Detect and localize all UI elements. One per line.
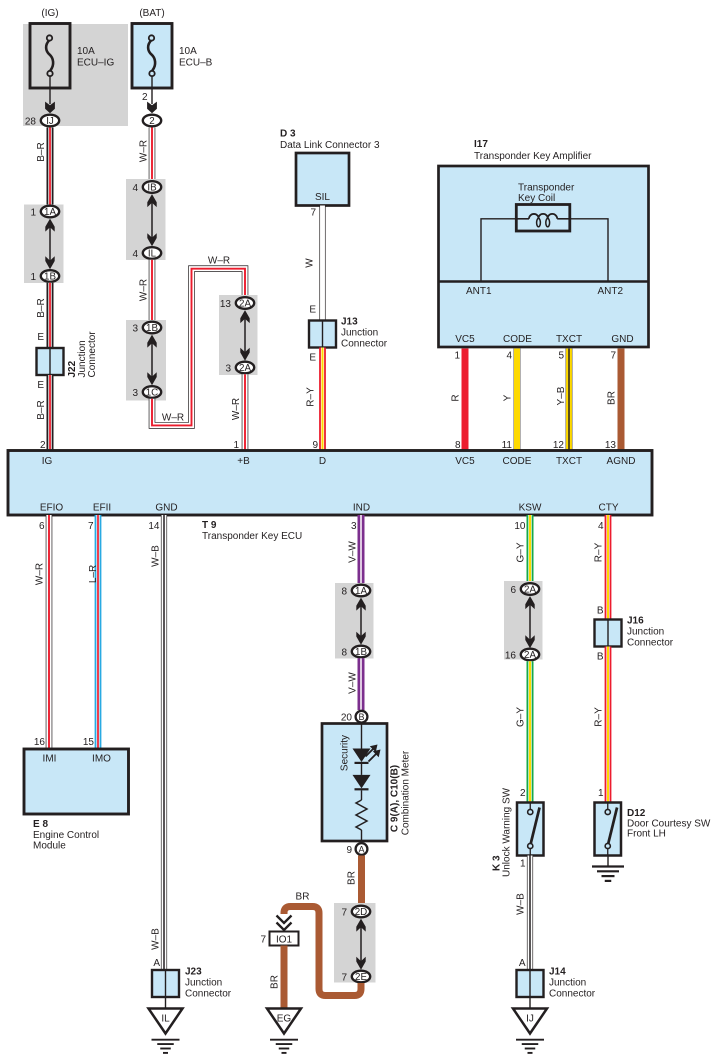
wire D12 to ground: [607, 856, 609, 867]
svg-text:1C: 1C: [146, 388, 159, 399]
labels IMI IMO: [43, 754, 112, 765]
svg-text:J23: J23: [185, 967, 202, 978]
svg-text:C 9(A), C10(B): C 9(A), C10(B): [390, 765, 401, 832]
ground below D12: [592, 867, 624, 881]
svg-text:CODE: CODE: [503, 456, 532, 467]
svg-text:4: 4: [132, 183, 138, 194]
svg-text:T 9: T 9: [202, 520, 217, 531]
connector 2: [143, 115, 161, 127]
svg-text:E: E: [309, 305, 316, 316]
wire fuse IG to connector IJ: [45, 77, 55, 113]
wire Y-B TXCT: [566, 349, 573, 451]
svg-text:J16: J16: [627, 616, 644, 627]
svg-text:D: D: [319, 456, 326, 467]
svg-text:15: 15: [83, 737, 95, 748]
wire W-R 1C loop to 2A: [152, 269, 245, 426]
svg-text:Combination Meter: Combination Meter: [401, 750, 412, 835]
wire W-B K3 to J14: [527, 856, 533, 971]
svg-text:Security: Security: [340, 735, 351, 771]
pass-through arrows 2A-2A KSW: [525, 596, 534, 648]
component combination meter box: [322, 724, 387, 842]
svg-text:SIL: SIL: [315, 192, 330, 203]
svg-text:10A: 10A: [77, 46, 95, 57]
junction connector J22: [37, 348, 64, 375]
wire B-R 1B to J22: [47, 283, 54, 349]
meter internal wire diode to resistor: [361, 790, 363, 800]
svg-text:2: 2: [149, 116, 154, 127]
wire G-Y KSW to 2A: [527, 515, 534, 583]
svg-text:9: 9: [346, 845, 352, 856]
gray backdrop fuse IG block: [23, 24, 128, 126]
connector 1B pin 3: [132, 322, 161, 335]
ground EG: [267, 1009, 301, 1053]
ECU top terminal labels: [42, 456, 636, 467]
svg-text:4: 4: [598, 521, 604, 532]
wire B-R IJ to 1A: [47, 128, 54, 206]
wire W-B GND to J23: [161, 515, 167, 970]
svg-text:W–B: W–B: [151, 545, 162, 567]
svg-text:E 8: E 8: [33, 819, 48, 830]
connector 2E pin 7: [341, 971, 370, 984]
svg-text:8: 8: [341, 647, 347, 658]
svg-text:KSW: KSW: [519, 503, 542, 514]
label C 9(A), C10(B) Combination Meter rotated: [390, 750, 412, 835]
svg-text:IMI: IMI: [43, 754, 57, 765]
connector 1A pin 8: [341, 585, 370, 598]
gray backdrop connector 1A/1B: [24, 205, 64, 284]
svg-text:IND: IND: [353, 503, 370, 514]
svg-text:Junction: Junction: [185, 978, 222, 989]
svg-text:1A: 1A: [355, 586, 367, 597]
svg-text:14: 14: [148, 521, 160, 532]
svg-text:B–R: B–R: [36, 142, 47, 161]
svg-text:2A: 2A: [524, 650, 536, 661]
svg-text:VC5: VC5: [455, 456, 475, 467]
wire V-W 1B to B: [358, 658, 365, 710]
svg-text:W–B: W–B: [151, 928, 162, 950]
svg-text:BR: BR: [607, 391, 618, 405]
svg-text:IMO: IMO: [92, 754, 111, 765]
wire BR A to 2D: [358, 856, 365, 906]
switch K3 Unlock Warning SW: [517, 803, 544, 856]
svg-text:(IG): (IG): [41, 8, 58, 19]
svg-text:W–R: W–R: [231, 398, 242, 420]
label 10A ECU-IG: [77, 46, 114, 69]
svg-text:Junction: Junction: [627, 627, 664, 638]
svg-text:ECU–IG: ECU–IG: [77, 58, 114, 69]
svg-text:28: 28: [25, 116, 37, 127]
svg-text:1: 1: [454, 351, 460, 362]
component E8 Engine Control Module box: [24, 749, 129, 814]
svg-text:13: 13: [220, 299, 232, 310]
svg-text:1A: 1A: [44, 207, 56, 218]
connector 1A pin 1: [30, 206, 59, 219]
svg-text:TXCT: TXCT: [556, 334, 582, 345]
svg-text:ANT2: ANT2: [598, 286, 624, 297]
pass-through arrows 1A-1B meter: [356, 598, 365, 645]
svg-text:16: 16: [34, 737, 46, 748]
svg-text:4: 4: [506, 351, 512, 362]
svg-text:1B: 1B: [146, 323, 158, 334]
svg-text:B: B: [597, 606, 604, 617]
connector 2A pin 3: [225, 362, 254, 375]
svg-text:1B: 1B: [44, 272, 56, 283]
svg-text:Junction: Junction: [341, 328, 378, 339]
svg-text:IL: IL: [161, 1014, 170, 1025]
svg-text:G–Y: G–Y: [516, 707, 527, 727]
svg-text:R–Y: R–Y: [594, 542, 605, 562]
label D 3 Data Link Connector 3: [280, 129, 380, 152]
svg-text:8: 8: [341, 586, 347, 597]
svg-text:Transponder Key ECU: Transponder Key ECU: [202, 531, 302, 542]
svg-text:R–Y: R–Y: [306, 387, 317, 407]
ECU pin labels 8 11 12 13: [455, 440, 616, 451]
svg-text:20: 20: [341, 713, 353, 724]
amplifier pin labels 1 4 5 7: [454, 351, 616, 362]
svg-text:7: 7: [610, 351, 616, 362]
svg-text:ANT1: ANT1: [466, 286, 492, 297]
junction connector J13: [309, 321, 336, 348]
svg-text:1: 1: [30, 207, 36, 218]
svg-text:EG: EG: [277, 1014, 292, 1025]
svg-text:4: 4: [132, 249, 138, 260]
svg-text:CODE: CODE: [503, 334, 532, 345]
transponder key coil box with inductor: [516, 205, 570, 232]
svg-text:J14: J14: [549, 967, 566, 978]
connector 2A pin 16: [505, 649, 539, 662]
wire R VC5: [462, 349, 469, 451]
svg-text:IL: IL: [148, 249, 157, 260]
svg-text:6: 6: [39, 521, 45, 532]
svg-text:Junction: Junction: [549, 978, 586, 989]
connector 1B pin 8: [341, 646, 370, 659]
svg-text:A: A: [153, 958, 160, 969]
label D12 Door Courtesy SW Front LH: [627, 808, 711, 840]
svg-text:Connector: Connector: [185, 989, 232, 1000]
svg-text:2A: 2A: [239, 363, 251, 374]
svg-text:G–Y: G–Y: [516, 542, 527, 562]
wire R-Y CTY to J16: [605, 515, 612, 620]
wire J14 to IJ ground: [529, 997, 531, 1009]
svg-text:Engine Control: Engine Control: [33, 830, 99, 841]
svg-text:IB: IB: [147, 183, 157, 194]
junction connector J14: [517, 970, 544, 997]
svg-text:A: A: [519, 958, 526, 969]
svg-text:EFII: EFII: [93, 503, 111, 514]
component D3 Data Link Connector 3 box: [296, 153, 349, 206]
svg-text:2A: 2A: [239, 299, 251, 310]
svg-text:GND: GND: [155, 503, 177, 514]
wire BR GND to AGND: [618, 349, 625, 451]
svg-text:10: 10: [514, 521, 526, 532]
svg-text:Connector: Connector: [341, 339, 388, 350]
svg-text:Module: Module: [33, 841, 66, 852]
svg-text:E: E: [37, 380, 44, 391]
svg-text:D12: D12: [627, 808, 646, 819]
label T 9 Transponder Key ECU: [202, 520, 302, 542]
wire R-Y J16 to D12: [605, 647, 612, 804]
svg-text:1: 1: [598, 788, 604, 799]
wire W-R IL to 1B: [149, 260, 156, 322]
pass-through arrows 1B-1C: [147, 335, 156, 386]
svg-text:IJ: IJ: [526, 1014, 534, 1025]
pass-through arrows 1A-1B: [45, 219, 54, 270]
ground IJ: [513, 1009, 547, 1053]
svg-text:3: 3: [132, 388, 138, 399]
svg-text:W–R: W–R: [139, 140, 150, 162]
divider line in amplifier: [439, 280, 649, 282]
diode in meter: [353, 775, 371, 789]
gray backdrop connector 2D/2E: [334, 903, 376, 983]
svg-text:(BAT): (BAT): [139, 8, 164, 19]
svg-text:2E: 2E: [355, 972, 367, 983]
svg-text:6: 6: [510, 585, 516, 596]
connector IB pin 4: [132, 181, 161, 194]
connector IJ pin 28: [25, 115, 59, 128]
svg-text:Y: Y: [503, 394, 514, 401]
svg-text:W–R: W–R: [162, 413, 184, 424]
svg-text:W–R: W–R: [139, 279, 150, 301]
connector IL pin 4: [132, 247, 161, 260]
svg-text:V–W: V–W: [348, 672, 359, 694]
wire J23 to IL ground: [165, 997, 167, 1009]
svg-text:IO1: IO1: [276, 935, 293, 946]
svg-text:Data Link Connector 3: Data Link Connector 3: [280, 140, 380, 151]
label K 3 Unlock Warning SW rotated: [492, 787, 513, 877]
wire L-R EFII to IMO: [95, 515, 102, 749]
svg-text:3: 3: [132, 323, 138, 334]
terminal B pin 20: [341, 711, 368, 724]
meter internal wire resistor to A: [361, 830, 363, 842]
wire W-R EFIO to IMI: [46, 515, 53, 749]
svg-text:BR: BR: [296, 892, 310, 903]
svg-text:Key Coil: Key Coil: [518, 193, 555, 204]
svg-text:7: 7: [341, 972, 347, 983]
gray backdrop connector 2A/2A: [219, 295, 258, 375]
svg-text:1: 1: [520, 859, 526, 870]
svg-text:E: E: [309, 353, 316, 364]
svg-text:Unlock Warning SW: Unlock Warning SW: [502, 787, 513, 877]
label Transponder Key Coil: [518, 183, 575, 205]
label 10A ECU-B: [179, 46, 213, 69]
svg-text:2: 2: [142, 92, 148, 103]
svg-text:V–W: V–W: [348, 541, 359, 563]
wire coil to ANT1: [481, 219, 516, 281]
svg-text:BR: BR: [270, 975, 281, 989]
svg-text:2: 2: [520, 788, 526, 799]
component IO1 box: [270, 932, 299, 946]
meter internal wire from B to LED: [361, 724, 363, 749]
svg-text:Transponder Key Amplifier: Transponder Key Amplifier: [474, 151, 592, 162]
svg-text:IG: IG: [42, 456, 53, 467]
terminal A pin 9: [346, 843, 367, 856]
svg-text:R: R: [451, 394, 462, 401]
svg-text:W–R: W–R: [208, 256, 230, 267]
svg-text:W–R: W–R: [35, 563, 46, 585]
svg-text:CTY: CTY: [599, 503, 619, 514]
svg-text:Connector: Connector: [87, 331, 98, 378]
svg-text:Y–B: Y–B: [556, 386, 567, 405]
svg-text:TXCT: TXCT: [556, 456, 582, 467]
svg-text:+B: +B: [237, 456, 250, 467]
svg-text:J13: J13: [341, 317, 358, 328]
gray backdrop connector IB/IL: [126, 179, 166, 260]
svg-text:EFIO: EFIO: [40, 503, 64, 514]
svg-text:Transponder: Transponder: [518, 183, 575, 194]
label J16 Junction Connector: [627, 616, 674, 649]
svg-text:Front LH: Front LH: [627, 829, 666, 840]
svg-text:IJ: IJ: [46, 116, 54, 127]
wire W SIL to J13: [319, 206, 325, 322]
wire Y CODE: [514, 349, 521, 451]
wire R-Y J13 to ECU D: [319, 348, 326, 451]
gray backdrop connector 1B/1C: [126, 320, 166, 401]
wire fuse BAT to connector 2: [147, 77, 157, 113]
connector 2A pin 6: [510, 583, 539, 596]
ECU bottom pin labels: [39, 521, 604, 532]
connector 2D pin 7: [341, 906, 370, 919]
svg-text:I17: I17: [474, 139, 488, 150]
label J23 Junction Connector: [185, 967, 232, 1000]
svg-text:GND: GND: [611, 334, 633, 345]
svg-text:W–B: W–B: [516, 893, 527, 915]
svg-text:16: 16: [505, 650, 517, 661]
svg-text:L–R: L–R: [88, 565, 99, 583]
junction connector J16: [595, 620, 622, 647]
label J13 Junction Connector: [341, 317, 388, 350]
pass-through arrows 2A-2A: [240, 310, 249, 361]
gray backdrop connector 1A/1B meter: [335, 583, 374, 659]
svg-text:10A: 10A: [179, 46, 197, 57]
ground IL: [149, 1009, 183, 1053]
ECU bottom terminal labels: [40, 503, 619, 514]
label I17 Transponder Key Amplifier: [474, 139, 592, 162]
resistor in meter: [356, 800, 367, 830]
svg-text:BR: BR: [347, 871, 358, 885]
svg-text:VC5: VC5: [455, 334, 475, 345]
svg-text:7: 7: [260, 935, 266, 946]
svg-text:B–R: B–R: [36, 298, 47, 317]
wire B-R J22 to ECU IG: [47, 375, 54, 451]
label E 8 Engine Control Module: [33, 819, 99, 852]
svg-text:B–R: B–R: [36, 400, 47, 419]
svg-text:E: E: [37, 332, 44, 343]
switch D12 Door Courtesy SW: [595, 803, 622, 856]
component T9 Transponder Key ECU box: [8, 451, 652, 516]
svg-text:1B: 1B: [355, 647, 367, 658]
pass-through arrows IB-IL: [147, 194, 156, 246]
svg-text:D 3: D 3: [280, 129, 296, 140]
connector 1B pin 1: [30, 270, 59, 283]
svg-text:Connector: Connector: [549, 989, 596, 1000]
svg-text:A: A: [358, 844, 364, 854]
svg-text:2A: 2A: [524, 585, 536, 596]
security LED indicator: [353, 745, 381, 763]
svg-text:7: 7: [341, 907, 347, 918]
wire W-R 2A to ECU +B: [242, 374, 249, 450]
gray backdrop connector 2A/2A KSW: [504, 581, 543, 660]
pass-through arrows 2D-2E: [356, 919, 365, 970]
labels VC5 CODE TXCT GND inside amplifier: [455, 334, 633, 345]
wire BR IO1 to EG: [281, 946, 288, 1010]
female connector chevrons above IO1: [277, 916, 292, 931]
svg-text:3: 3: [351, 521, 357, 532]
fuse 10A ECU-B: [132, 24, 172, 89]
junction connector J23: [152, 970, 179, 997]
svg-text:2D: 2D: [355, 907, 368, 918]
svg-text:B: B: [358, 712, 364, 722]
label J14 Junction Connector: [549, 967, 596, 1000]
svg-text:7: 7: [88, 521, 94, 532]
svg-text:3: 3: [225, 363, 231, 374]
wire V-W IND to 1A: [358, 515, 365, 585]
svg-text:W: W: [305, 258, 316, 268]
wire coil to ANT2: [570, 219, 608, 281]
connector 2A pin 13: [220, 297, 254, 310]
wire W-R 2 to IB: [149, 128, 156, 182]
svg-text:5: 5: [558, 351, 564, 362]
svg-text:Connector: Connector: [627, 638, 674, 649]
wire BR 2E to IO1: [284, 907, 361, 996]
svg-text:R–Y: R–Y: [594, 707, 605, 727]
wire G-Y 2A to K3: [527, 661, 534, 803]
connector 1C pin 3: [132, 386, 161, 399]
meter internal wire LED to diode: [361, 764, 363, 775]
component I17 amplifier box: [439, 166, 649, 347]
svg-text:B: B: [597, 652, 604, 663]
svg-text:7: 7: [310, 208, 316, 219]
label J22 Junction Connector rotated: [67, 331, 98, 378]
svg-text:1: 1: [30, 272, 36, 283]
fuse 10A ECU-IG: [30, 24, 70, 89]
svg-text:AGND: AGND: [607, 456, 636, 467]
svg-text:ECU–B: ECU–B: [179, 58, 213, 69]
